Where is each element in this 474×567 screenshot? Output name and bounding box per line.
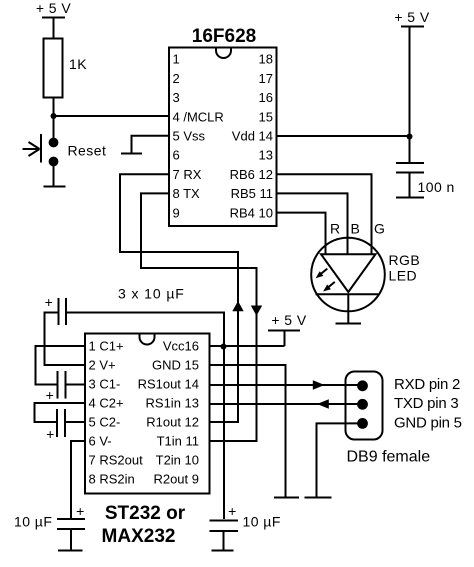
arrow left on TXD line <box>317 399 329 409</box>
wire Vcc16 to +5V <box>210 345 285 347</box>
svg-text:T2in 10: T2in 10 <box>156 453 199 468</box>
wire C2 right plate to pin 5 C2- <box>65 421 85 423</box>
svg-text:4 /MCLR: 4 /MCLR <box>173 109 224 124</box>
IC U1 PIC 16F628 body <box>169 48 277 227</box>
svg-text:B: B <box>351 221 361 237</box>
svg-text:R: R <box>330 221 341 237</box>
svg-text:+: + <box>46 387 55 403</box>
wire MCLR node to PIC pin 4 <box>54 115 170 117</box>
IC U2 ST232 body <box>85 334 210 494</box>
wire RB4 (pin10) to LED R <box>277 213 326 254</box>
wire button to ground <box>53 162 55 186</box>
ground (Vss pin 5) <box>121 153 142 155</box>
LED RGB (circle + triangle + cathode bar) <box>311 238 385 312</box>
svg-text:6 V-: 6 V- <box>89 434 112 449</box>
DB9 pin 3 dot <box>357 399 368 410</box>
svg-text:R2out 9: R2out 9 <box>153 472 199 487</box>
svg-text:7 RX: 7 RX <box>173 167 202 182</box>
svg-text:5 Vss: 5 Vss <box>173 129 206 144</box>
svg-text:15: 15 <box>259 109 273 124</box>
svg-text:RB5 11: RB5 11 <box>231 186 273 201</box>
LED arrow 2 <box>323 282 335 292</box>
svg-text:3 x 10 µF: 3 x 10 µF <box>118 286 185 302</box>
LED arrow 1 <box>316 269 328 279</box>
svg-text:RS1in 13: RS1in 13 <box>146 396 199 411</box>
capacitor 10uF (left) <box>57 503 85 550</box>
svg-text:Vcc16: Vcc16 <box>163 339 199 354</box>
capacitor C1 (10uF) <box>46 371 66 403</box>
wire RX (pin7) to R1out (ST232 pin 12) <box>120 174 238 422</box>
svg-text:RGB: RGB <box>389 252 421 268</box>
wire resistor bottom to MCLR node <box>53 98 55 142</box>
svg-text:10 µF: 10 µF <box>243 514 281 530</box>
label RGB LED <box>389 252 421 284</box>
wire RB6 (pin12) to LED G <box>277 174 372 254</box>
arrow up on RX line <box>232 301 243 311</box>
svg-text:8 RS2in: 8 RS2in <box>89 472 135 487</box>
svg-text:RS1out 14: RS1out 14 <box>138 377 199 392</box>
svg-text:ST232 or: ST232 or <box>105 503 186 524</box>
svg-text:1 C1+: 1 C1+ <box>89 339 124 354</box>
DB9 pin 5 dot <box>357 418 368 429</box>
svg-text:5 C2-: 5 C2- <box>89 415 121 430</box>
+5V supply symbol (top right, PIC Vdd) <box>394 9 430 162</box>
ground (DB9 GND) <box>305 497 332 499</box>
svg-text:3 C1-: 3 C1- <box>89 377 121 392</box>
capacitor 10uF (right, on Vcc) <box>210 503 239 550</box>
wire Vss to ground <box>132 136 170 153</box>
wire LED cathode to ground <box>347 294 349 322</box>
ground (GND pin 15) <box>274 497 299 499</box>
svg-text:9: 9 <box>173 205 180 220</box>
wire pin4 C2+ detour to C2 cap <box>35 403 86 422</box>
svg-text:DB9 female: DB9 female <box>347 449 431 466</box>
svg-text:13: 13 <box>259 148 273 163</box>
svg-text:MAX232: MAX232 <box>102 526 176 547</box>
svg-text:1K: 1K <box>69 56 87 72</box>
capacitor C-V+ (10uF top, V+ to Vcc) <box>45 294 66 325</box>
svg-text:16: 16 <box>259 90 273 105</box>
svg-text:8 TX: 8 TX <box>173 186 201 201</box>
svg-text:+: + <box>46 426 55 442</box>
wire RB5 (pin11) to LED B <box>277 193 348 254</box>
svg-text:2: 2 <box>173 71 180 86</box>
wire RS1in13 from DB9 TXD <box>210 403 363 405</box>
svg-text:100 n: 100 n <box>418 179 455 195</box>
wire pin1 C1+ detour to C1 cap <box>36 346 86 385</box>
DB9 pin 2 dot <box>357 380 368 391</box>
resistor 1K <box>44 39 63 98</box>
svg-text:+: + <box>45 294 54 310</box>
svg-text:RXD pin 2: RXD pin 2 <box>394 376 460 393</box>
wire V- (pin6) to 10uF cap <box>71 441 85 518</box>
wire V+ cap left plate to pin 2 V+ <box>45 313 86 366</box>
label ST232 or MAX232 <box>102 503 186 547</box>
capacitor 100n <box>396 163 424 197</box>
ground (LED) <box>336 323 362 325</box>
wire DB9 GND pin5 to ground <box>317 423 363 496</box>
svg-text:R1out 12: R1out 12 <box>146 415 199 430</box>
+5V supply symbol (ST232 Vcc) <box>268 312 307 346</box>
wire V+ cap right plate to Vcc node <box>66 313 224 520</box>
svg-text:3: 3 <box>173 90 180 105</box>
pushbutton Reset <box>23 134 59 166</box>
capacitor C2 (10uF) <box>46 409 65 442</box>
svg-text:+ 5 V: + 5 V <box>394 9 430 25</box>
ground (reset button) <box>44 186 66 188</box>
svg-text:TXD pin 3: TXD pin 3 <box>394 395 458 412</box>
wire C1 right plate to pin 3 C1- <box>66 384 86 386</box>
arrow down on TX line <box>251 306 262 316</box>
svg-text:17: 17 <box>259 71 273 86</box>
svg-text:4 C2+: 4 C2+ <box>89 396 124 411</box>
wire Vdd (pin14) to +5V rail <box>277 135 410 137</box>
svg-text:GND 15: GND 15 <box>152 358 199 373</box>
svg-text:10 µF: 10 µF <box>14 514 52 530</box>
node junction dot (Vdd net) <box>407 134 413 140</box>
svg-text:16F628: 16F628 <box>192 26 256 47</box>
wire RS1out14 to DB9 RXD <box>210 384 363 386</box>
svg-text:RB4 10: RB4 10 <box>230 205 273 220</box>
svg-text:7 RS2out: 7 RS2out <box>89 453 144 468</box>
svg-text:+ 5 V: + 5 V <box>36 0 72 16</box>
wire GND15 to ground <box>210 365 286 497</box>
ground (right 10uF) <box>212 550 234 552</box>
svg-text:+ 5 V: + 5 V <box>271 312 307 328</box>
arrow right on RXD line <box>313 380 325 390</box>
svg-text:T1in 11: T1in 11 <box>157 434 199 449</box>
svg-text:18: 18 <box>259 52 273 67</box>
svg-text:+: + <box>228 503 237 519</box>
svg-text:LED: LED <box>389 268 418 284</box>
svg-text:GND pin 5: GND pin 5 <box>394 414 462 431</box>
wire TX (pin8) to T1in (ST232 pin 11) <box>141 193 257 441</box>
svg-text:G: G <box>374 221 385 237</box>
+5V supply symbol (top left, feeds 1K resistor) <box>36 0 72 38</box>
ground (left 10uF) <box>58 550 83 552</box>
svg-text:Vdd 14: Vdd 14 <box>232 129 273 144</box>
connector DB9 body <box>346 372 383 440</box>
svg-text:1: 1 <box>173 52 180 67</box>
svg-text:6: 6 <box>173 148 180 163</box>
svg-text:RB6 12: RB6 12 <box>230 167 273 182</box>
svg-text:+: + <box>76 503 85 519</box>
ground (100n cap) <box>396 197 424 199</box>
svg-text:2 V+: 2 V+ <box>89 358 116 373</box>
node junction dot (Vcc net) <box>221 344 227 350</box>
node junction dot (MCLR net) <box>51 113 57 119</box>
svg-text:Reset: Reset <box>68 143 107 159</box>
